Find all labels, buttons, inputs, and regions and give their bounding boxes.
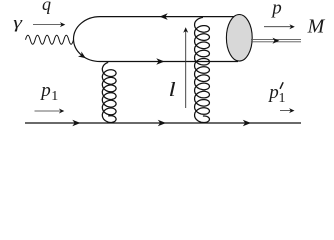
arrow 3 on bottom line <box>243 120 251 127</box>
p1 momentum arrow <box>35 110 61 112</box>
top quark line <box>100 16 234 18</box>
arrow on lower quark line (pointing right) <box>156 58 164 65</box>
l momentum arrow (vertical, pointing up) <box>185 30 187 108</box>
gluon 1 (left, vertical) <box>102 62 116 122</box>
p momentum arrow <box>264 26 292 28</box>
svg-text:p: p <box>270 0 282 19</box>
bottom spectator line <box>25 122 301 124</box>
arrowhead on lower arc <box>78 52 88 61</box>
p1prime label (prime) <box>280 83 283 89</box>
arrow on meson double line <box>273 38 280 44</box>
lower quark line <box>100 61 238 63</box>
svg-text:p: p <box>267 82 279 103</box>
meson blob ellipse <box>226 15 252 62</box>
quark loop left arc <box>74 17 101 62</box>
arrow 2 on bottom line <box>158 120 166 127</box>
p1prime momentum arrow <box>280 110 291 112</box>
photon gamma wavy line <box>26 35 74 44</box>
arrow 1 on bottom line <box>72 120 80 127</box>
svg-text:p: p <box>39 80 51 101</box>
arrow on top quark line (pointing left) <box>160 13 168 20</box>
svg-text:1: 1 <box>51 89 58 104</box>
svg-text:1: 1 <box>279 91 286 106</box>
svg-text:l: l <box>169 79 176 101</box>
q momentum arrow <box>33 24 62 26</box>
svg-text:M: M <box>307 16 326 38</box>
svg-text:γ: γ <box>13 13 23 32</box>
svg-text:q: q <box>42 0 51 14</box>
meson double line <box>251 39 301 41</box>
gluon 2 (right, vertical) <box>195 17 210 122</box>
